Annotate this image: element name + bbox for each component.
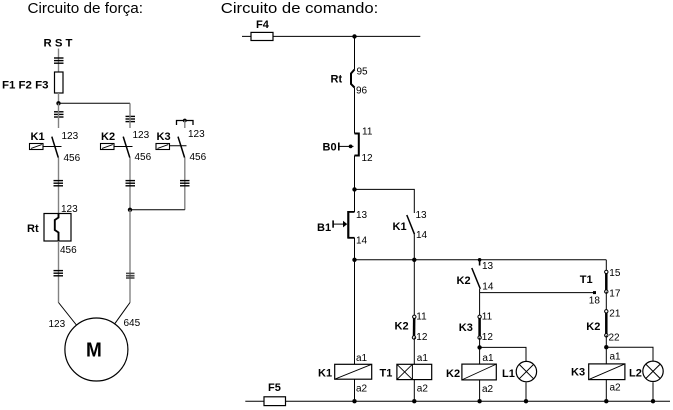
wire: K2 contact to merge junction (129, 158, 131, 210)
wire: Rt to B0 (354, 88, 356, 134)
wire: B0 to node A (354, 156, 356, 190)
node: K3 coil / L2 branch (604, 345, 608, 349)
svg-text:K2: K2 (446, 368, 460, 380)
svg-text:a2: a2 (356, 384, 368, 395)
3-phase hash above motor right (126, 273, 135, 278)
svg-text:13: 13 (416, 210, 428, 221)
wire: bus to K2 aux contact (413, 260, 415, 317)
svg-text:13: 13 (356, 210, 368, 221)
wire: Rt to motor bend (58, 241, 60, 303)
svg-text:14: 14 (356, 236, 368, 247)
wire: branch to K1 aux contact (355, 189, 415, 213)
svg-text:15: 15 (609, 268, 621, 279)
svg-text:13: 13 (482, 261, 494, 272)
svg-text:a1: a1 (482, 353, 494, 364)
wire: K2 21-22 to coil node (605, 335, 607, 364)
K3 branch top tap (177, 119, 194, 125)
coil K2 (446, 353, 496, 395)
svg-text:K2: K2 (586, 321, 600, 333)
svg-text:F4: F4 (256, 19, 270, 31)
svg-text:11: 11 (362, 127, 373, 138)
svg-text:T1: T1 (580, 274, 593, 286)
wire: K1 contact to bus (413, 234, 415, 259)
wire: fuse to junction (58, 93, 60, 103)
3-phase hash on K2 branch top (126, 116, 136, 121)
svg-text:456: 456 (135, 152, 152, 163)
wire: K3 coil to bottom bus (605, 380, 607, 402)
node: K1 coil at bottom bus (352, 399, 356, 403)
svg-text:11: 11 (482, 312, 493, 323)
svg-text:K2: K2 (395, 321, 409, 333)
wire: bus corner down to T1 contact (605, 260, 607, 271)
wire: tap to K3 contact (184, 121, 186, 129)
terminal 18 of T1 contact (593, 291, 596, 294)
svg-text:K2: K2 (457, 275, 471, 287)
svg-text:14: 14 (416, 230, 428, 241)
contact K2 aux 11-12 (395, 312, 428, 344)
svg-text:123: 123 (188, 129, 205, 140)
wire: K3 to merge junction (130, 209, 185, 211)
svg-text:a2: a2 (482, 384, 494, 395)
wire: slant into motor terminal 123 (59, 303, 77, 326)
coil K3 (571, 352, 625, 394)
svg-text:12: 12 (482, 332, 494, 343)
timer coil T1 (380, 353, 432, 395)
3-phase hash above motor left (54, 271, 64, 276)
contact K2 aux 13-14 (NO) (457, 260, 494, 293)
svg-text:123: 123 (49, 319, 66, 330)
svg-text:Circuito de comando:: Circuito de comando: (221, 0, 378, 17)
svg-text:Rt: Rt (27, 223, 39, 235)
node: bus at K1 coil branch (352, 258, 356, 262)
svg-text:11: 11 (416, 312, 427, 323)
svg-text:L2: L2 (629, 368, 642, 380)
wire: K3 contact down (184, 158, 186, 210)
svg-text:B1: B1 (317, 222, 331, 234)
bus: bottom return rail (245, 400, 670, 402)
timed contact T1 15-17 (580, 268, 621, 300)
contactor K2 main contact (101, 130, 152, 163)
node A: seal-in branch (352, 187, 356, 191)
lamp L1 (502, 361, 537, 381)
wire: K1 contact to Rt (58, 158, 60, 214)
wire: branch to lamp L1 (480, 347, 526, 361)
svg-text:18: 18 (589, 296, 601, 307)
svg-text:K1: K1 (31, 131, 45, 143)
svg-text:123: 123 (133, 130, 150, 141)
node: K2 coil at bottom bus (477, 399, 481, 403)
svg-text:T1: T1 (380, 368, 393, 380)
node: K2/K3 merge (128, 208, 132, 212)
fuse F1 F2 F3 (55, 72, 64, 93)
thermal contact Rt 95-96 (331, 67, 369, 97)
contact K3 aux 11-12 (459, 312, 494, 344)
wire: T1 coil to bottom bus (413, 380, 415, 402)
svg-text:456: 456 (190, 152, 207, 163)
svg-text:a2: a2 (610, 383, 622, 394)
svg-text:12: 12 (362, 153, 374, 164)
wire: bus to K2 contact (129, 103, 131, 128)
node: feeder junction (56, 101, 60, 105)
svg-text:B0: B0 (323, 142, 337, 154)
contact K2 aux 21-22 (586, 308, 621, 343)
wire: top to Rt contact (354, 36, 356, 69)
wire: K1 coil to bottom bus (354, 379, 356, 401)
3-phase hash below K3 contact (180, 181, 190, 186)
svg-text:K3: K3 (157, 131, 171, 143)
contactor K3 main contact (156, 129, 207, 163)
svg-text:a1: a1 (610, 352, 622, 363)
wire: 17 to 21 (605, 292, 607, 312)
svg-text:K1: K1 (318, 368, 332, 380)
wire: feeder drop from RST (58, 49, 60, 73)
wire: horizontal bus to K2 branch (59, 102, 131, 104)
pushbutton B1 (NO) 13-14 (317, 210, 368, 247)
svg-text:F5: F5 (268, 382, 281, 394)
3-phase hash above fuse F1F2F3 (54, 58, 64, 63)
svg-text:F1 F2 F3: F1 F2 F3 (2, 79, 49, 91)
wire: merge to motor bend (129, 210, 131, 303)
node: bus at K1 contact (412, 258, 416, 262)
node: L1 at bottom bus (524, 399, 528, 403)
wire: slant into motor terminal 645 (115, 303, 130, 324)
svg-text:Circuito de força:: Circuito de força: (28, 0, 144, 17)
wire: K2 contact to T1 coil (413, 338, 415, 365)
svg-text:17: 17 (609, 289, 621, 300)
svg-text:22: 22 (609, 333, 621, 344)
node: K3 coil at bottom bus (604, 399, 608, 403)
lamp L2 (629, 361, 663, 381)
svg-text:a1: a1 (356, 353, 368, 364)
svg-text:K3: K3 (571, 367, 585, 379)
node: control feed (352, 34, 356, 38)
node: bus at K2 branch (478, 258, 482, 262)
svg-text:12: 12 (416, 332, 428, 343)
wire: K3 contact to coil node (479, 338, 481, 365)
wire: control top line (242, 35, 420, 37)
wire: L2 to bottom bus (652, 382, 654, 401)
thermal overload relay Rt (27, 214, 71, 242)
wire: bus to K1 coil (354, 260, 356, 365)
wire: K2 coil to bottom bus (479, 380, 481, 401)
3-phase hash below K2 contact (126, 181, 136, 186)
wire: junction to K1 contact (58, 103, 60, 128)
wire: L1 to bottom bus (525, 383, 527, 402)
svg-text:Rt: Rt (331, 74, 343, 86)
svg-text:96: 96 (356, 86, 368, 97)
svg-text:M: M (86, 340, 102, 362)
motor M (65, 318, 128, 381)
svg-text:645: 645 (124, 318, 141, 329)
wire: branch to T1 contact terminal 18 (480, 292, 595, 294)
wire: K2 13-14 down to K3 contact (479, 289, 481, 317)
node: L2 at bottom bus (651, 399, 655, 403)
contactor K1 main contact (30, 131, 81, 164)
node: K2 coil / L1 branch (477, 345, 481, 349)
fuse F5 (264, 397, 286, 406)
node: T1 at bottom bus (412, 399, 416, 403)
3-phase hash below K1 contact (54, 181, 64, 186)
coil K1 (318, 353, 372, 395)
svg-text:95: 95 (357, 67, 369, 78)
svg-text:a1: a1 (417, 353, 429, 364)
fuse F4 (251, 32, 273, 40)
contact K1 aux 13-14 (NO) (393, 210, 428, 241)
wire: branch to lamp L2 (606, 347, 653, 360)
svg-text:K3: K3 (459, 322, 473, 334)
svg-text:K2: K2 (101, 131, 115, 143)
bus: seal-in rail (355, 259, 607, 261)
svg-text:456: 456 (60, 245, 77, 256)
wire: B1 to bus (354, 238, 356, 260)
3-phase hash on K1 branch (54, 112, 64, 117)
svg-text:123: 123 (62, 131, 79, 142)
svg-text:R S T: R S T (44, 38, 73, 50)
svg-text:L1: L1 (502, 368, 515, 380)
svg-text:456: 456 (64, 153, 81, 164)
pushbutton B0 (NC) 11-12 (323, 127, 374, 165)
wire: main line through B1 (354, 189, 356, 212)
svg-text:K1: K1 (393, 221, 407, 233)
svg-text:14: 14 (482, 282, 494, 293)
svg-text:21: 21 (609, 308, 621, 319)
svg-text:a2: a2 (417, 384, 429, 395)
